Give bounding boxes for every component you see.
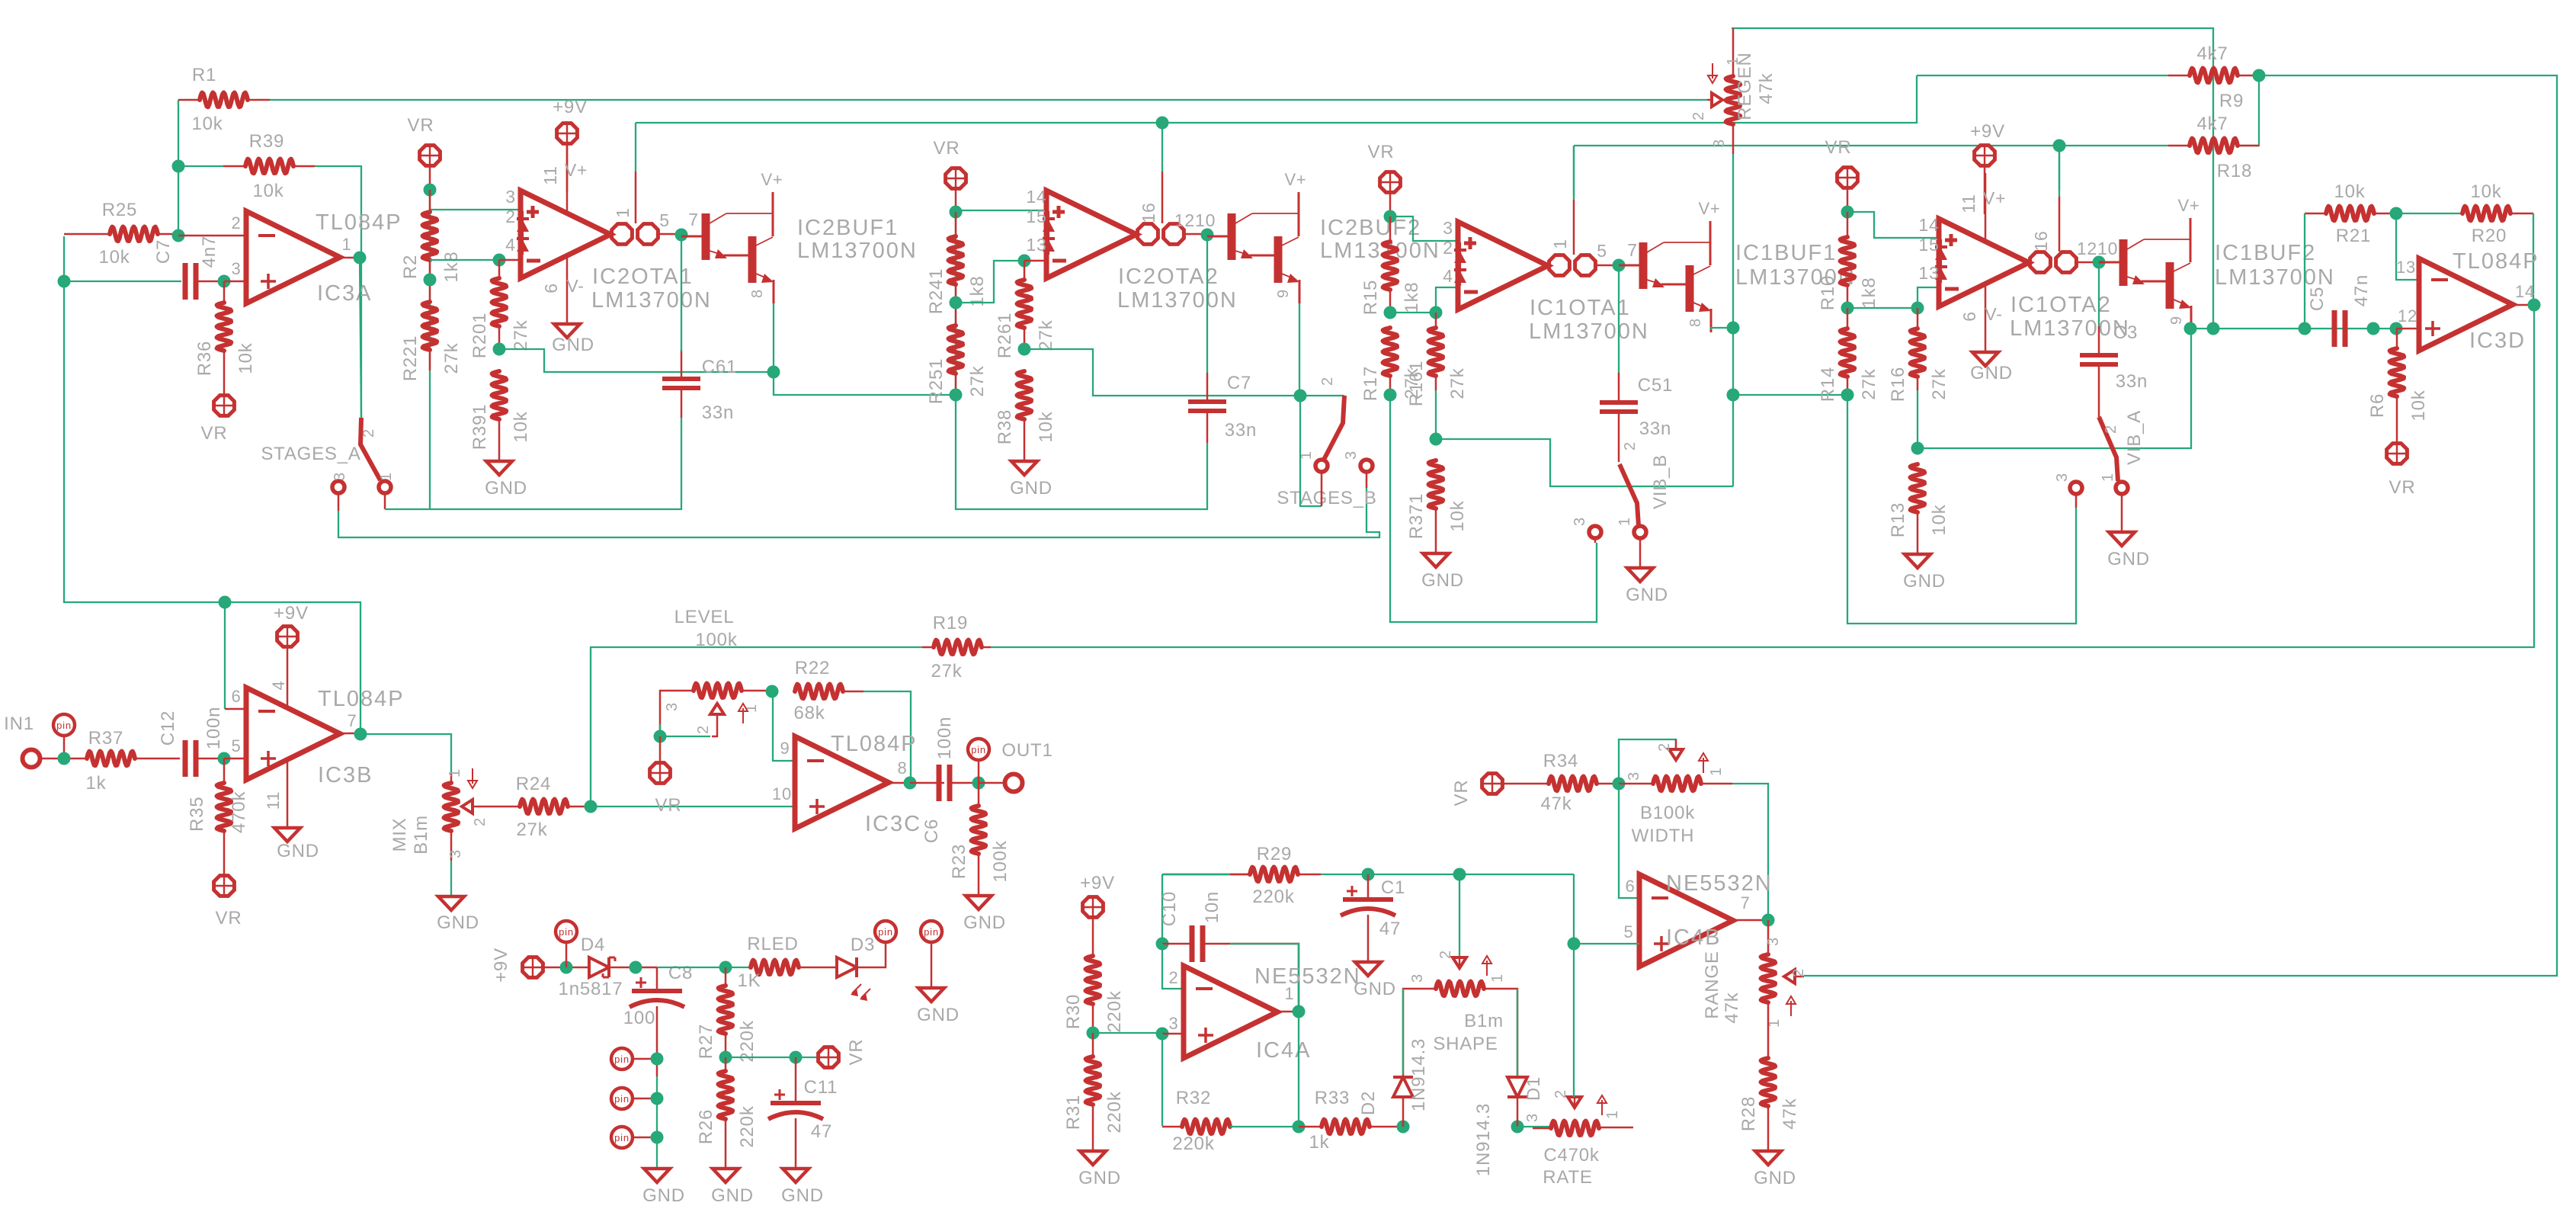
- wire R18 right lead: [2238, 145, 2259, 147]
- svg-text:R34: R34: [1543, 751, 1578, 771]
- supply VR R6: [2387, 444, 2408, 464]
- supply +9V lfo: [1083, 897, 1104, 918]
- svg-text:2: 2: [231, 213, 241, 232]
- capacitor C3 stub top: [2098, 326, 2100, 355]
- svg-text:GND: GND: [711, 1185, 754, 1206]
- svg-text:2: 2: [2103, 425, 2119, 434]
- wire pin aux1 stub: [633, 1058, 657, 1060]
- wire R24 right lead: [568, 806, 591, 808]
- wire C11 top stub: [795, 1057, 797, 1101]
- wire OUT1 pin stub: [978, 760, 980, 783]
- svg-text:3: 3: [1626, 771, 1642, 781]
- svg-text:16: 16: [1139, 202, 1158, 223]
- wire STAGES_A pin3 bus: [338, 488, 1379, 537]
- ground U IC2OTA1 V-: [554, 324, 580, 338]
- svg-text:pin: pin: [924, 926, 939, 938]
- svg-text:R27: R27: [696, 1024, 716, 1059]
- transistor buffer IC2BUF2: [1207, 236, 1229, 238]
- svg-text:R17: R17: [1360, 366, 1381, 401]
- wire stage2 chain: [956, 212, 1207, 509]
- wire IC3D output long loop to R19: [991, 305, 2534, 647]
- wire to OTA2 pin13: [1024, 260, 1046, 262]
- wire C51 bottom stub: [1618, 412, 1620, 462]
- svg-text:GND: GND: [963, 912, 1006, 933]
- node D1 cathode: [1511, 1121, 1524, 1134]
- minus sign U IC2OTA2: [1053, 259, 1066, 263]
- wire RANGE wiper stub: [1795, 976, 1804, 978]
- supply VR below R36: [214, 396, 235, 416]
- capacitor C61 stub top: [681, 350, 683, 379]
- capacitor C12: [183, 740, 188, 777]
- wire IC3B out to MIX: [360, 734, 451, 773]
- node LEVEL right: [766, 685, 779, 698]
- wire C5 row: [2190, 328, 2397, 329]
- svg-text:R32: R32: [1176, 1088, 1211, 1108]
- svg-text:IC2BUF1: IC2BUF1: [797, 216, 899, 240]
- svg-text:1: 1: [1604, 1110, 1621, 1119]
- wire R33 right lead: [1370, 1126, 1403, 1128]
- wire MIX wiper stub: [473, 806, 520, 808]
- ground R13: [1905, 554, 1930, 568]
- wire R6 bottom lead: [2396, 396, 2398, 443]
- wire LEVEL VR stub: [659, 736, 662, 762]
- svg-text:220k: 220k: [1104, 990, 1125, 1032]
- wire SHAPE pin1 down: [1484, 989, 1517, 1077]
- wire R26 top lead: [725, 1057, 727, 1071]
- plus sign IC4B: [1654, 942, 1669, 945]
- wire stage1 minus row: [430, 259, 499, 261]
- svg-text:3: 3: [2054, 473, 2071, 482]
- svg-text:IC1BUF1: IC1BUF1: [1735, 241, 1837, 265]
- svg-text:10k: 10k: [2408, 390, 2429, 421]
- wire R29 lead red: [1230, 874, 1250, 876]
- svg-text:1k8: 1k8: [1859, 277, 1879, 308]
- potentiometer RATE body: [1551, 1121, 1599, 1136]
- port OUT1: [1005, 774, 1023, 792]
- ground U IC1OTA2 V-: [1972, 352, 1998, 366]
- ground R391: [486, 461, 512, 475]
- svg-text:3: 3: [1524, 1113, 1541, 1122]
- node R21 R20: [2390, 207, 2403, 220]
- svg-text:5: 5: [231, 736, 241, 755]
- plus sign IC3D: [2425, 327, 2440, 330]
- wire R19 right lead: [982, 646, 991, 649]
- svg-text:2: 2: [1319, 377, 1336, 386]
- node R24 out: [585, 800, 598, 813]
- wire R39 row: [178, 165, 223, 167]
- svg-text:10k: 10k: [98, 247, 130, 268]
- node C5 left: [2299, 322, 2312, 335]
- svg-text:68k: 68k: [793, 703, 825, 723]
- wire R24 to IC3C pin10: [591, 806, 795, 807]
- svg-text:SHAPE: SHAPE: [1433, 1034, 1498, 1054]
- svg-text:12: 12: [2398, 306, 2417, 325]
- svg-text:C61: C61: [702, 357, 737, 377]
- node IC3B out: [354, 728, 367, 741]
- ground VIB_A: [2109, 532, 2135, 546]
- svg-text:4k7: 4k7: [2196, 43, 2228, 64]
- resistor R261: [1017, 280, 1032, 328]
- node buffer4 emitter: [2184, 322, 2197, 335]
- svg-text:IC3A: IC3A: [317, 281, 372, 306]
- node aux2: [651, 1092, 664, 1105]
- svg-text:R251: R251: [926, 358, 947, 405]
- svg-text:GND: GND: [1421, 570, 1464, 591]
- node aux1: [651, 1053, 664, 1066]
- svg-text:2: 2: [1622, 441, 1639, 451]
- supply VR ref: [819, 1047, 839, 1068]
- svg-text:27k: 27k: [1036, 319, 1056, 351]
- minus sign U IC2OTA1: [527, 259, 540, 263]
- switch STAGES_A contact 1: [379, 481, 391, 493]
- svg-text:R201: R201: [469, 313, 490, 359]
- wire IC3A output: [340, 257, 360, 259]
- capacitor C61: [662, 377, 700, 381]
- wire bias bus W2 (to R9): [1917, 75, 2168, 76]
- wire R241 leads red: [955, 212, 957, 236]
- plus sign U IC2OTA1: [527, 210, 539, 214]
- wire R27 top lead: [725, 967, 727, 986]
- svg-text:220k: 220k: [1172, 1134, 1214, 1154]
- svg-text:1k8: 1k8: [441, 251, 462, 282]
- wire R29 right lead: [1298, 874, 1321, 876]
- svg-text:7: 7: [347, 711, 357, 730]
- svg-text:13: 13: [1026, 235, 1046, 255]
- wiper REGEN: [1712, 93, 1722, 107]
- ground R371: [1423, 553, 1449, 567]
- svg-text:R20: R20: [2472, 226, 2507, 246]
- wire STAGES_B pin1 stub: [1321, 473, 1323, 506]
- svg-text:10k: 10k: [252, 181, 284, 201]
- svg-text:GND: GND: [2107, 549, 2150, 569]
- svg-text:C3: C3: [2113, 322, 2138, 343]
- capacitor C11: [771, 1101, 821, 1105]
- svg-text:1210: 1210: [2077, 239, 2118, 258]
- node stage2 mid: [950, 297, 963, 309]
- wire R18 right vertical: [2236, 75, 2259, 146]
- node pin6 branch: [219, 596, 232, 609]
- resistor R22: [795, 685, 843, 699]
- wire R391 bottom lead: [498, 419, 501, 461]
- svg-text:27k: 27k: [441, 342, 462, 374]
- wiper RANGE: [1784, 970, 1795, 983]
- svg-text:R25: R25: [102, 200, 137, 220]
- potentiometer REGEN body: [1726, 76, 1741, 124]
- resistor R32: [1182, 1120, 1230, 1134]
- wire R29 loop: [1161, 874, 1163, 944]
- wire to IC3A pin2: [178, 235, 246, 237]
- wire C10 right loop: [1203, 944, 1299, 1012]
- svg-text:47n: 47n: [2351, 274, 2372, 306]
- wire R13 bottom lead: [1917, 512, 1919, 554]
- svg-text:1k: 1k: [86, 773, 107, 794]
- wire R15 bottom lead: [1389, 290, 1392, 313]
- switch VIB_A contact 3: [2070, 482, 2082, 494]
- node IN1: [58, 752, 71, 765]
- ground R38: [1011, 461, 1037, 475]
- wire WIDTH right lead: [1701, 783, 1732, 785]
- wire R19 left to LEVEL node: [591, 647, 922, 807]
- minus sign U IC1OTA2: [1945, 287, 1959, 291]
- wire to IC3D pin12: [2396, 328, 2419, 330]
- wire R34 right lead: [1597, 783, 1619, 785]
- svg-text:VR: VR: [1368, 142, 1395, 162]
- switch STAGES_B lever: [1324, 396, 1344, 460]
- svg-text:7: 7: [1740, 893, 1750, 912]
- svg-text:33n: 33n: [1225, 420, 1257, 441]
- ground VIB_B: [1627, 568, 1653, 582]
- svg-text:3: 3: [1765, 937, 1782, 946]
- svg-text:IC2BUF2: IC2BUF2: [1320, 216, 1421, 240]
- svg-text:GND: GND: [1754, 1168, 1796, 1188]
- svg-text:IC4A: IC4A: [1256, 1038, 1311, 1063]
- svg-text:R371: R371: [1406, 493, 1427, 540]
- wire stage1 +in row: [430, 209, 521, 210]
- wire R16 top lead: [1917, 308, 1919, 329]
- wire R201 top lead: [498, 260, 501, 278]
- svg-text:2: 2: [1690, 111, 1707, 120]
- svg-text:13: 13: [1918, 263, 1939, 283]
- svg-text:3: 3: [505, 187, 516, 207]
- svg-text:6: 6: [1959, 311, 1979, 322]
- resistor R26: [719, 1071, 733, 1119]
- wire VR stage4 stub: [1847, 188, 1849, 212]
- wire IC3B pin4 stub: [287, 648, 289, 707]
- wire top feedback bus (REGEN pin1 to IC3D node): [1732, 28, 2213, 327]
- svg-text:R13: R13: [1888, 502, 1908, 537]
- wire +9V to D4: [543, 967, 589, 969]
- wire RANGE bottom lead: [1767, 1002, 1770, 1058]
- ground R31: [1080, 1151, 1106, 1165]
- svg-text:47k: 47k: [1540, 794, 1572, 814]
- svg-text:RLED: RLED: [747, 934, 798, 954]
- wire VR stage3 stub: [1389, 193, 1392, 216]
- node SHAPE drop: [1453, 868, 1466, 881]
- svg-text:6: 6: [1625, 877, 1635, 896]
- svg-text:R9: R9: [2219, 91, 2244, 111]
- wire REGEN bottom lead: [1732, 124, 1735, 154]
- node stage2 vr: [950, 206, 963, 219]
- node stage4 out: [2093, 256, 2106, 269]
- wire stage2 +in row: [956, 210, 1046, 211]
- svg-text:GND: GND: [437, 912, 479, 933]
- svg-text:GND: GND: [917, 1005, 960, 1025]
- node IC4A pin3: [1156, 1028, 1169, 1041]
- svg-text:R21: R21: [2336, 226, 2371, 246]
- pin marker aux1: [611, 1048, 633, 1069]
- svg-text:pin: pin: [878, 926, 893, 938]
- svg-text:R221: R221: [400, 335, 421, 382]
- resistor R251: [949, 325, 963, 374]
- resistor R30: [1086, 956, 1101, 1004]
- wire LEVEL to pin9 vertical: [773, 691, 795, 761]
- transistor buffer IC1BUF1: [1619, 265, 1640, 267]
- resistor R29: [1250, 867, 1298, 882]
- svg-text:2: 2: [472, 817, 489, 826]
- svg-text:R35: R35: [187, 797, 207, 832]
- svg-text:4: 4: [269, 680, 288, 690]
- wire R34 left lead: [1503, 783, 1549, 785]
- wire R20 right green: [2533, 213, 2534, 305]
- wire R23 top lead: [978, 783, 980, 806]
- wire R21 left green: [2304, 213, 2305, 329]
- capacitor C8: [632, 989, 682, 993]
- pin marker IN1: [53, 714, 75, 736]
- wire SHAPE pin3 green: [1402, 989, 1404, 1077]
- svg-text:C8: C8: [668, 963, 693, 983]
- wire pin5 down to RATE wiper: [1573, 944, 1575, 1097]
- wire R25 left lead: [64, 233, 110, 236]
- diode D4: [589, 957, 609, 977]
- minus sign IC3B: [258, 710, 275, 713]
- wire SHAPE pin1 green: [1517, 989, 1518, 1077]
- node stage3 vr: [1384, 210, 1397, 223]
- wire LEVEL left lead: [660, 691, 694, 730]
- resistor R17: [1383, 328, 1398, 376]
- svg-text:R29: R29: [1257, 844, 1292, 864]
- node stage2 chain bot: [950, 389, 963, 402]
- svg-text:4: 4: [505, 235, 516, 255]
- minus sign IC4A: [1196, 987, 1213, 990]
- resistor R20: [2462, 207, 2510, 221]
- pin marker power: [556, 921, 577, 942]
- svg-text:1: 1: [613, 207, 633, 218]
- svg-text:V+: V+: [2177, 196, 2200, 215]
- wire R10 bottom lead: [1847, 285, 1849, 308]
- svg-text:R36: R36: [194, 341, 215, 376]
- svg-text:8: 8: [1687, 318, 1704, 327]
- node input +in: [58, 275, 71, 288]
- plus sign U IC1OTA2: [1945, 239, 1957, 242]
- svg-text:GND: GND: [1010, 478, 1053, 499]
- node stage4 mid: [1841, 302, 1854, 315]
- wire pin13 drop: [2396, 213, 2419, 280]
- wire R29 left lead: [1162, 874, 1250, 876]
- svg-text:VIB_A: VIB_A: [2124, 410, 2145, 465]
- wire VIB_A pin3 stub: [2075, 495, 2078, 508]
- resistor R161: [1429, 328, 1443, 376]
- capacitor C10: [1190, 925, 1195, 962]
- arrow glyph LEVEL: [742, 708, 744, 723]
- node stage2 minus: [1018, 255, 1031, 268]
- switch VIB_A contact 1: [2116, 482, 2128, 494]
- wire D2 bottom lead: [1402, 1097, 1405, 1127]
- svg-text:NE5532N: NE5532N: [1666, 871, 1773, 896]
- svg-text:VR: VR: [201, 423, 228, 444]
- wire R31 bottom lead: [1092, 1105, 1094, 1151]
- wire RATE left lead: [1533, 1127, 1551, 1130]
- wire LEVEL right lead: [742, 690, 772, 692]
- svg-text:LM13700N: LM13700N: [797, 239, 918, 263]
- resistor R6: [2390, 348, 2405, 396]
- switch STAGES_A contact 3: [332, 481, 344, 493]
- node aux3: [651, 1131, 664, 1144]
- wiper RATE: [1568, 1097, 1581, 1108]
- potentiometer SHAPE body: [1436, 982, 1484, 996]
- wire R30 node row: [1093, 1032, 1162, 1034]
- wire to IC3B pin5: [224, 758, 246, 760]
- wire R32 left lead: [1162, 1126, 1182, 1128]
- wiper SHAPE: [1453, 957, 1466, 968]
- node buffer1 emitter: [767, 366, 780, 379]
- wire R39 right to switch pole: [315, 166, 361, 418]
- svg-text:pin: pin: [614, 1053, 630, 1065]
- wire R34 to pin6: [1619, 784, 1639, 898]
- pin marker D3: [875, 921, 896, 942]
- svg-text:IC2OTA2: IC2OTA2: [1118, 265, 1219, 289]
- svg-text:10k: 10k: [511, 411, 531, 442]
- output circles U IC1OTA1: [1549, 255, 1570, 276]
- wire C3 bottom stub: [2098, 364, 2100, 417]
- wire R33 left lead: [1299, 1126, 1322, 1128]
- resistor R16: [1911, 329, 1925, 377]
- wire RATE wiper stub: [1574, 1097, 1576, 1108]
- op-amp U IC2OTA1 triangle: [521, 191, 610, 278]
- svg-text:R26: R26: [696, 1109, 716, 1144]
- wire U IC2OTA1 V+ pin11: [566, 145, 569, 212]
- resistor R27: [719, 986, 733, 1034]
- svg-text:R28: R28: [1738, 1096, 1759, 1131]
- diodes inside U IC2OTA1: [522, 211, 524, 255]
- wire C8 column green: [656, 1076, 658, 1169]
- wire U IC2OTA1 V- pin6: [566, 256, 569, 324]
- svg-text:3: 3: [1711, 139, 1728, 148]
- wire IC4A out down: [1298, 1012, 1299, 1127]
- wire R23 bottom lead: [978, 854, 980, 896]
- wire R31 top lead: [1092, 1033, 1094, 1057]
- wire stage3 +in jog: [1390, 216, 1458, 241]
- op-amp IC4B: [1639, 874, 1733, 967]
- resistor R39: [245, 159, 293, 174]
- diodes inside U IC1OTA2: [1940, 239, 1942, 283]
- output circles U IC2OTA2: [1138, 224, 1158, 245]
- wire power rail to RLED: [657, 967, 751, 968]
- wire IC4A output: [1277, 1011, 1299, 1013]
- wire D4 cathode lead: [609, 967, 657, 969]
- wire R161 bottom lead: [1435, 376, 1437, 390]
- wire R1 right lead: [248, 99, 270, 101]
- wire stage3 minus row: [1390, 312, 1436, 313]
- svg-text:STAGES_B: STAGES_B: [1277, 488, 1376, 508]
- arrow glyph MIX: [472, 768, 473, 784]
- wire R25 right lead: [158, 233, 178, 236]
- svg-text:27k: 27k: [1447, 367, 1468, 399]
- svg-text:GND: GND: [277, 841, 319, 861]
- svg-text:RANGE: RANGE: [1702, 951, 1722, 1018]
- svg-text:220k: 220k: [1104, 1091, 1125, 1133]
- resistor R15: [1383, 242, 1398, 290]
- wire stage1 link to stage2: [774, 372, 956, 395]
- svg-text:R19: R19: [933, 613, 968, 633]
- capacitor C6: [937, 765, 942, 801]
- wire R26 bottom lead: [725, 1119, 727, 1169]
- svg-text:1: 1: [1489, 973, 1506, 983]
- diodes inside U IC2OTA2: [1048, 211, 1049, 255]
- svg-text:10k: 10k: [1036, 411, 1056, 442]
- wire stage3 out to C51: [1618, 265, 1620, 373]
- wire SHAPE wiper drop: [1459, 874, 1460, 957]
- wire U IC1OTA2 V- pin6: [1985, 284, 1987, 352]
- capacitor C7 stage2: [1188, 399, 1226, 404]
- diode D3 LED: [837, 957, 857, 977]
- resistor R36: [217, 303, 232, 351]
- wire stage2 out to C7: [1206, 235, 1208, 373]
- wire C1 top stub: [1367, 874, 1370, 897]
- resistor R10: [1841, 237, 1855, 285]
- svg-text:1: 1: [1550, 239, 1570, 249]
- wire pin aux3 stub: [633, 1137, 657, 1139]
- ground C1: [1355, 962, 1381, 976]
